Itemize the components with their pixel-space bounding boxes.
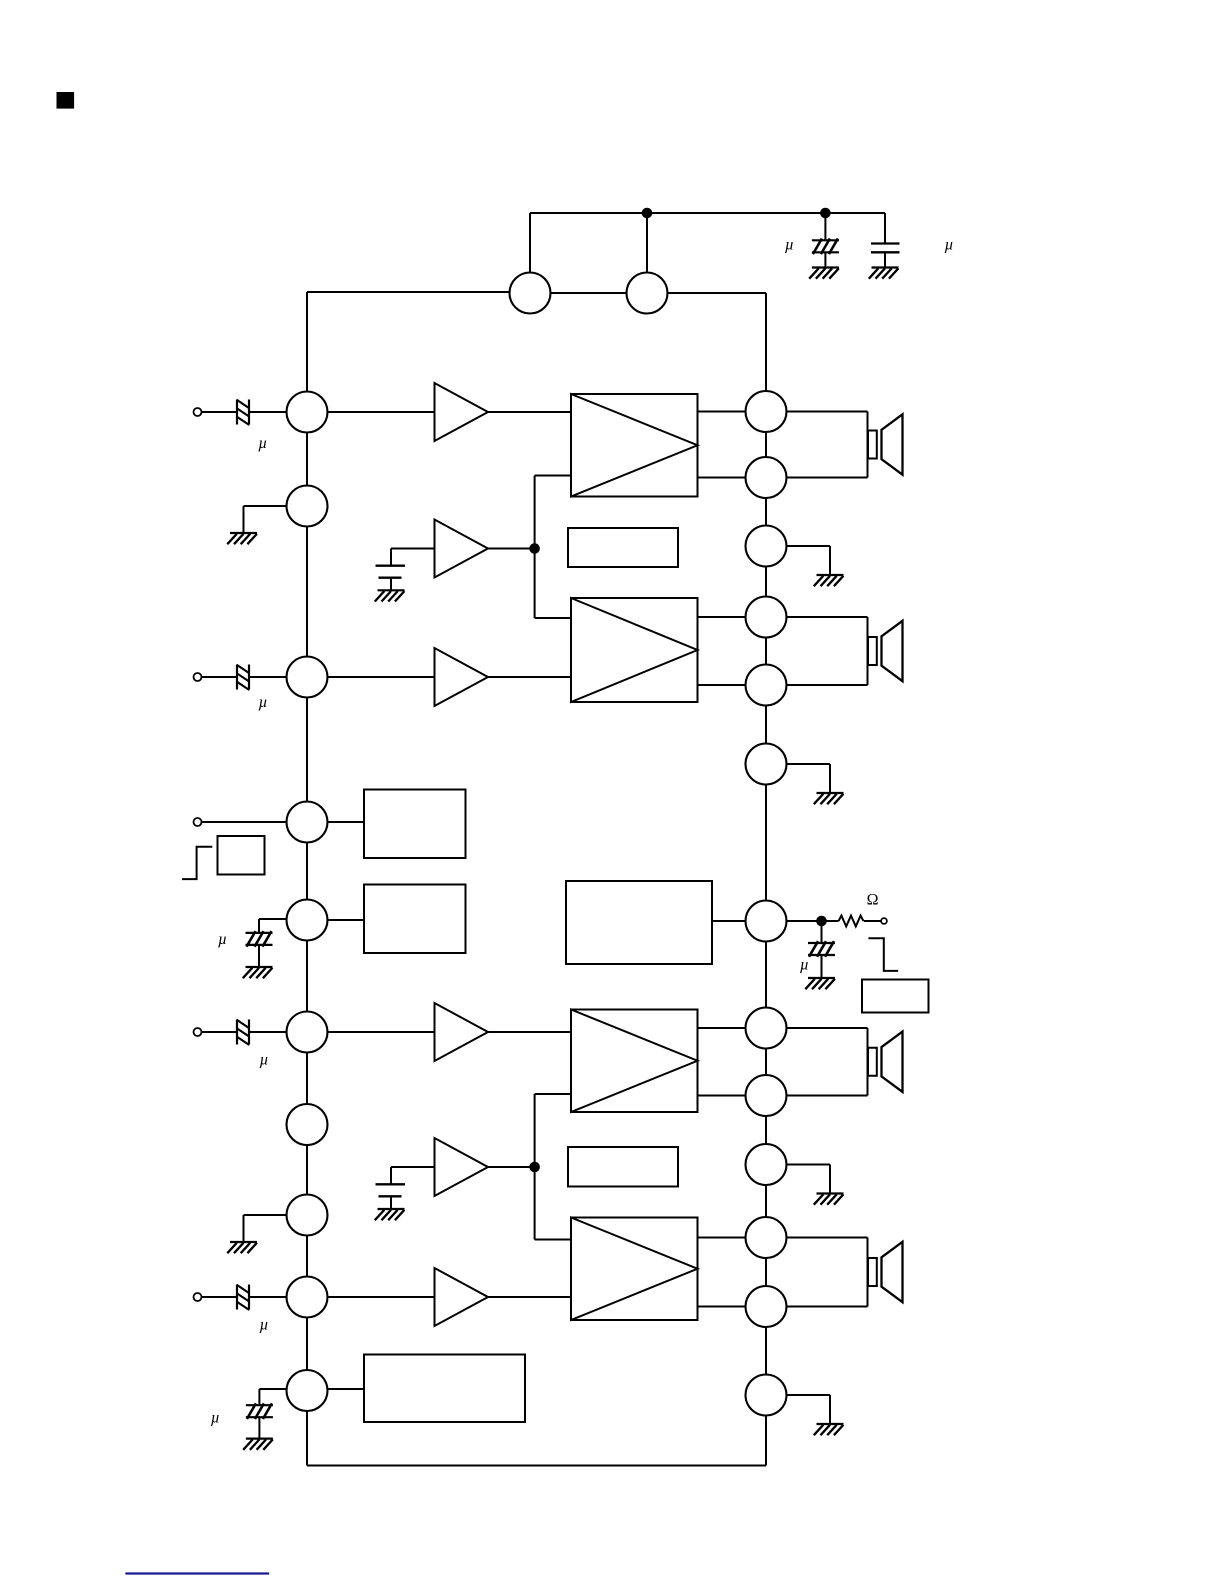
svg-text:µ: µ	[944, 236, 953, 253]
svg-text:µ: µ	[211, 1409, 220, 1426]
svg-text:µ: µ	[785, 237, 794, 254]
svg-text:µ: µ	[800, 957, 809, 974]
svg-text:µ: µ	[218, 931, 227, 948]
svg-text:µ: µ	[259, 1317, 268, 1334]
svg-text:µ: µ	[259, 1052, 268, 1069]
svg-text:µ: µ	[258, 694, 267, 711]
svg-text:Ω: Ω	[867, 892, 879, 909]
svg-text:µ: µ	[258, 435, 267, 452]
